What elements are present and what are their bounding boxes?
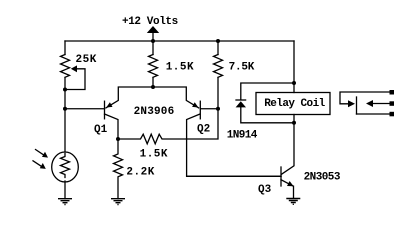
light arrow 1 — [36, 150, 49, 158]
wire pot bottom to LDR — [64, 78, 66, 153]
wire 7.5K to Q2 base — [217, 78, 219, 109]
terminal square top — [390, 90, 395, 95]
node dot Q1 base junction — [63, 107, 67, 111]
terminal square bottom — [390, 112, 395, 117]
svg-text:1.5K: 1.5K — [140, 149, 168, 161]
transistor Q2 2N3906 — [153, 87, 281, 176]
svg-text:1.5K: 1.5K — [166, 62, 194, 74]
terminal square middle — [390, 101, 395, 106]
svg-text:25K: 25K — [76, 54, 97, 66]
wire LDR to ground — [64, 181, 66, 199]
node dot wiper junction — [63, 88, 67, 92]
svg-text:Q2: Q2 — [197, 124, 210, 136]
svg-text:2N3053: 2N3053 — [304, 172, 341, 184]
wire rail to 1.5K — [152, 41, 154, 55]
wire rail right corner down to relay — [293, 41, 295, 93]
resistor 2.2K — [114, 139, 123, 199]
node dot diode bottom — [292, 121, 296, 125]
svg-text:Relay Coil: Relay Coil — [264, 98, 325, 110]
transistor Q1 2N3906 — [65, 87, 153, 139]
contact wire middle — [373, 103, 389, 105]
photoresistor LDR circle — [52, 152, 79, 182]
wire 1.5K to emitter node — [152, 78, 154, 88]
node dot at +12 rail — [151, 39, 155, 43]
contact arrow right — [348, 100, 355, 107]
svg-text:Q3: Q3 — [258, 184, 272, 196]
ground under Q3 — [286, 199, 300, 205]
node dot 7.5K top — [216, 39, 220, 43]
wire top +12V rail — [65, 40, 294, 42]
svg-text:1N914: 1N914 — [227, 130, 258, 142]
potentiometer wiper arrow — [65, 65, 85, 89]
resistor 1.5K vertical — [149, 55, 158, 78]
relay contacts — [340, 90, 394, 116]
svg-text:+12 Volts: +12 Volts — [122, 16, 178, 28]
node dot diode top — [292, 81, 296, 85]
relay coil box — [256, 93, 330, 115]
node dot common emitters — [151, 85, 155, 89]
node dot Q1 collector — [116, 137, 120, 141]
potentiometer 25K body — [61, 55, 70, 78]
contact pole bar — [356, 97, 358, 114]
ground under 2.2K — [111, 199, 125, 205]
svg-text:Q1: Q1 — [94, 124, 108, 136]
node dot Q2 base junction — [216, 107, 220, 111]
contact wire top — [340, 92, 389, 104]
photoresistor zigzag — [61, 154, 70, 178]
resistor 7.5K — [214, 55, 223, 78]
wire relay bottom to Q3 collector — [282, 115, 294, 175]
ground under LDR — [58, 199, 72, 205]
diode 1N914 — [236, 83, 294, 123]
svg-text:2N3906: 2N3906 — [134, 106, 175, 118]
svg-text:2.2K: 2.2K — [126, 167, 154, 179]
wire rail to 7.5K — [217, 41, 219, 55]
resistor 1.5K horizontal — [118, 109, 218, 144]
light arrow 2 — [33, 161, 46, 169]
contact arrow left — [366, 100, 373, 107]
contact wire bottom — [357, 113, 390, 115]
svg-text:7.5K: 7.5K — [229, 62, 255, 74]
wire left branch down from rail — [64, 41, 66, 55]
transistor Q3 2N3053 — [187, 167, 294, 198]
power +12 Volts arrow — [147, 26, 159, 41]
